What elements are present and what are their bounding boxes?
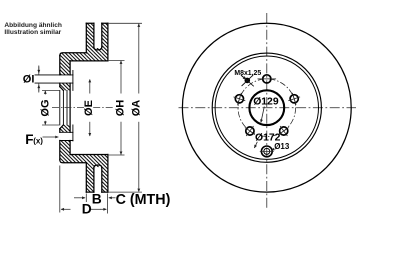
svg-text:C (MTH): C (MTH) [116,192,171,208]
svg-text:ØI: ØI [23,74,35,86]
svg-text:Ø13: Ø13 [274,142,290,151]
svg-text:M8x1,25: M8x1,25 [234,70,261,77]
svg-text:B: B [92,192,102,207]
svg-text:ØE: ØE [83,100,95,116]
svg-text:Illustration similar: Illustration similar [4,29,61,36]
svg-text:ØA: ØA [130,100,142,117]
svg-text:ØG: ØG [40,99,52,116]
svg-text:(x): (x) [33,137,43,146]
svg-text:Ø129: Ø129 [253,97,279,108]
svg-text:ØH: ØH [114,100,126,117]
svg-text:D: D [82,202,92,217]
